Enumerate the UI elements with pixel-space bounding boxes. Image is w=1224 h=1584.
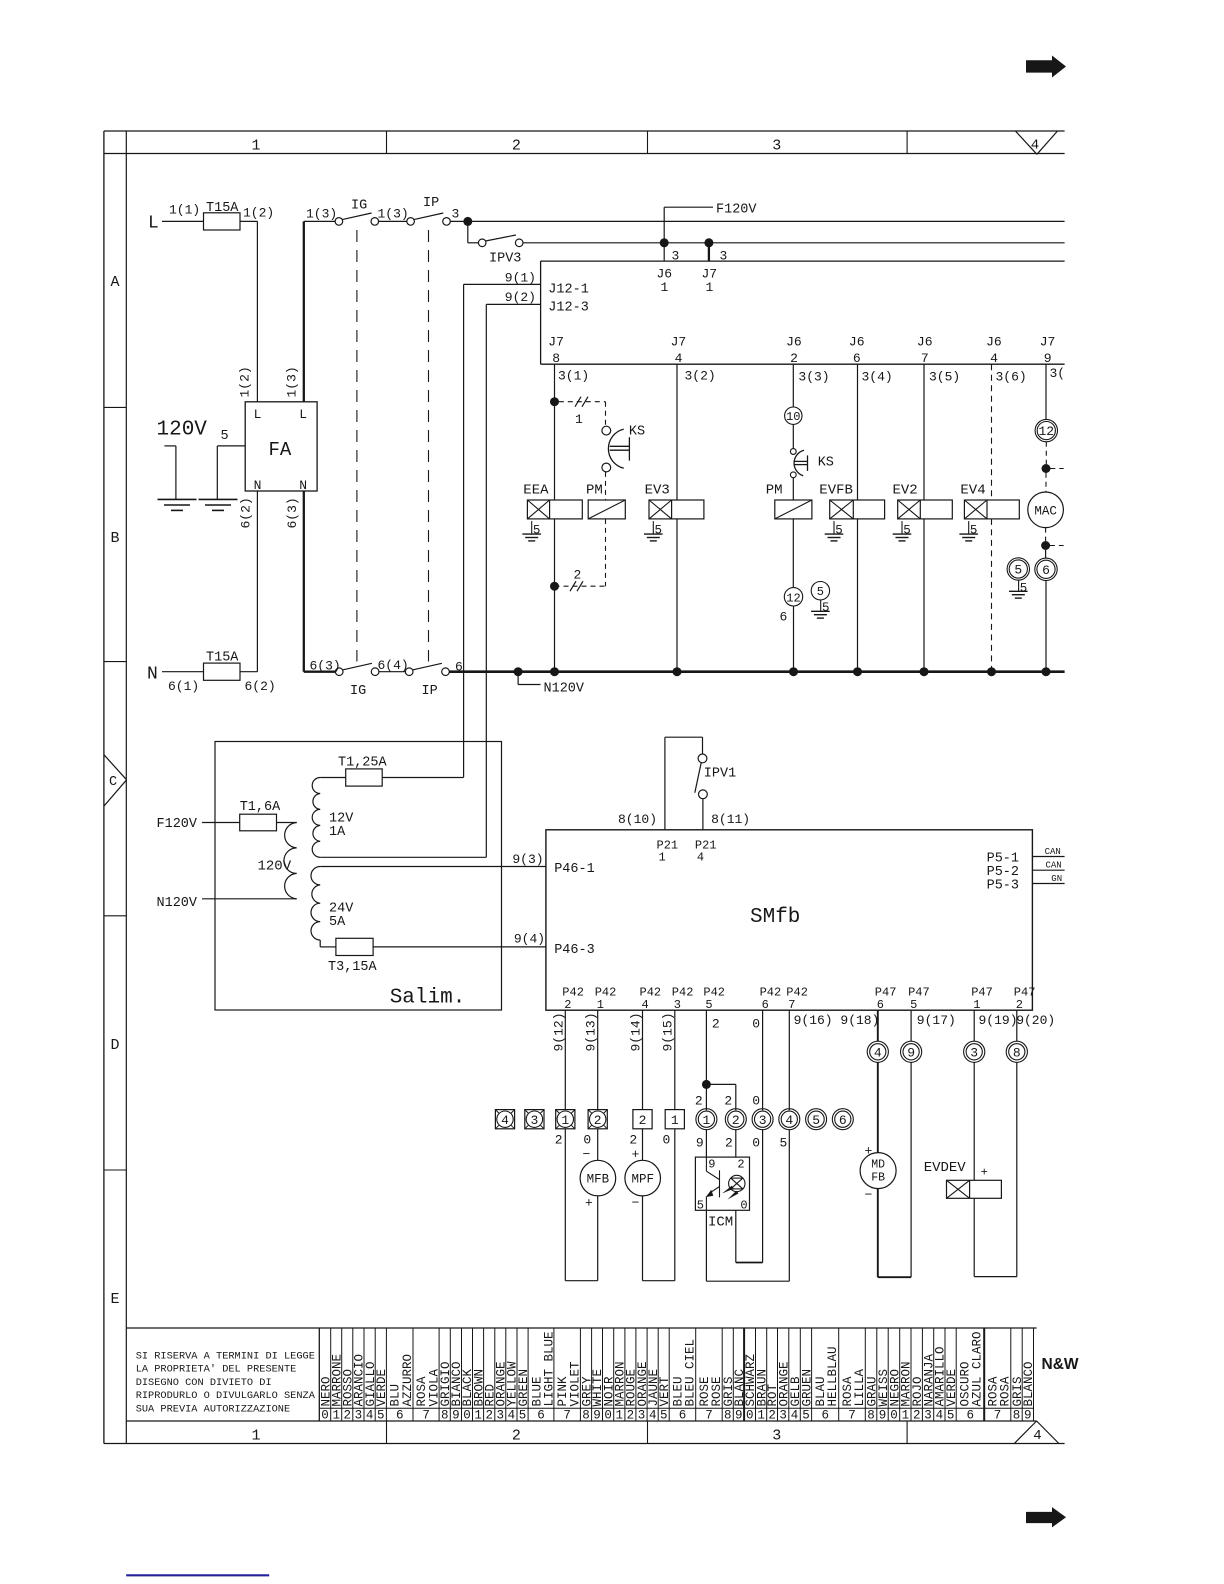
ground EV4 pin 5	[959, 521, 978, 541]
svg-text:J6: J6	[986, 335, 1002, 350]
svg-text:1: 1	[706, 280, 714, 295]
svg-text:4: 4	[874, 1045, 882, 1060]
svg-text:1: 1	[757, 1409, 765, 1423]
top right sheet arrow	[1026, 56, 1066, 78]
dashed wire MAC to node	[1045, 528, 1047, 542]
pin P42-7	[786, 986, 808, 1012]
connector pin 6 (spare)	[832, 1109, 853, 1130]
left fold mark C	[104, 755, 127, 806]
svg-text:J7: J7	[671, 335, 687, 350]
wire EEA to bus	[554, 519, 556, 672]
connector pin 4 (spare)	[495, 1110, 514, 1129]
svg-text:3(6): 3(6)	[996, 369, 1027, 384]
svg-text:KS: KS	[818, 456, 834, 471]
wire CAN high	[1032, 847, 1064, 857]
connector pin 2 (ICM)	[725, 1109, 746, 1130]
svg-text:8: 8	[1013, 1045, 1021, 1060]
svg-text:6: 6	[1042, 563, 1050, 578]
wire MDFB right	[910, 1062, 912, 1277]
terminal 12	[780, 588, 803, 625]
svg-text:5: 5	[835, 523, 843, 537]
svg-text:10: 10	[786, 410, 800, 424]
junction node (MAC top)	[1042, 464, 1064, 473]
svg-text:J6: J6	[917, 335, 933, 350]
svg-text:P46-1: P46-1	[554, 862, 595, 877]
wire 6 to bus	[1045, 581, 1047, 672]
svg-text:BLANCO: BLANCO	[1022, 1361, 1036, 1406]
wire 3(5) J6-7 to EV2	[924, 364, 960, 500]
svg-text:5: 5	[519, 1409, 527, 1423]
wire 9(14)	[628, 1010, 643, 1109]
svg-text:EV2: EV2	[893, 483, 918, 499]
svg-text:N&W: N&W	[1042, 1356, 1079, 1373]
svg-text:VERDE: VERDE	[945, 1369, 959, 1407]
wire pin1 to ICM	[705, 1130, 707, 1157]
solenoid EV3	[645, 483, 704, 519]
wire EV3 to bus	[676, 519, 678, 672]
svg-text:9: 9	[735, 1409, 743, 1423]
svg-text:J7: J7	[548, 335, 564, 350]
svg-text:0: 0	[746, 1409, 754, 1423]
svg-text:J6: J6	[849, 335, 865, 350]
junction EVFB/bus	[853, 667, 862, 676]
svg-text:EEA: EEA	[523, 483, 549, 499]
svg-text:4: 4	[642, 998, 649, 1012]
svg-text:5A: 5A	[329, 915, 346, 930]
thermostat KS2	[790, 449, 834, 478]
svg-text:120V: 120V	[258, 859, 292, 875]
svg-text:5: 5	[660, 1409, 668, 1423]
wire MDFB left lower (bold)	[877, 1189, 879, 1278]
wire N to fuse	[162, 671, 204, 673]
svg-text:6(2): 6(2)	[239, 497, 254, 528]
svg-text:N: N	[299, 478, 307, 493]
svg-text:7: 7	[422, 1409, 430, 1423]
pin label J7 1	[702, 267, 718, 296]
svg-text:1(1): 1(1)	[169, 203, 200, 218]
junction J7-1	[704, 238, 713, 247]
wire 9(2) vertical	[485, 304, 487, 857]
svg-text:EVDEV: EVDEV	[924, 1160, 967, 1176]
svg-text:4: 4	[791, 1409, 799, 1423]
wire to switch IG	[304, 220, 335, 222]
svg-text:6: 6	[821, 1409, 829, 1423]
svg-text:6: 6	[780, 609, 788, 624]
svg-text:1: 1	[561, 1113, 569, 1128]
junction J6-1	[660, 238, 669, 247]
svg-text:9: 9	[696, 1135, 704, 1150]
junction EV2/bus	[920, 667, 929, 676]
bottom border row	[387, 1421, 908, 1444]
junction node (MAC bottom)	[1041, 541, 1064, 550]
svg-text:5: 5	[903, 523, 911, 537]
junction ICM feed	[702, 1080, 736, 1110]
connector box	[541, 261, 1065, 364]
svg-text:0: 0	[752, 1094, 760, 1109]
svg-text:D: D	[110, 1037, 119, 1054]
svg-text:F120V: F120V	[716, 203, 757, 218]
wire IPV3 rail	[523, 242, 1065, 244]
svg-text:8: 8	[552, 351, 560, 366]
wire 9(1) vertical	[463, 284, 465, 777]
pin P42-3	[672, 986, 694, 1012]
svg-text:3: 3	[772, 138, 781, 155]
wire drop to IPV3	[467, 221, 469, 242]
connector pin 2 (MPF)	[633, 1110, 652, 1129]
wire 9(13)	[584, 1010, 599, 1109]
wire 3(4) J6-6 to EVFB	[858, 364, 893, 500]
pin P42-5	[703, 986, 725, 1012]
svg-text:J12-3: J12-3	[548, 301, 589, 316]
svg-text:3: 3	[530, 1113, 538, 1128]
wire N120V to primary	[202, 898, 297, 900]
svg-text:E: E	[110, 1291, 119, 1308]
svg-text:2: 2	[712, 1017, 720, 1032]
wire EVDEV left	[973, 1062, 975, 1180]
svg-text:6: 6	[839, 1113, 847, 1128]
svg-text:9(4): 9(4)	[514, 932, 545, 947]
svg-text:3: 3	[759, 1113, 767, 1128]
switch IP (neutral)	[405, 663, 449, 699]
wire pin3 down	[762, 1130, 764, 1263]
terminal 6 (MAC)	[1035, 558, 1057, 580]
wire EVDEV right	[1016, 1062, 1018, 1276]
switch IPV1	[695, 737, 736, 798]
svg-text:4: 4	[649, 1409, 657, 1423]
wire colour code table	[126, 1328, 1036, 1421]
solenoid EV2	[893, 483, 953, 519]
svg-text:5: 5	[812, 1113, 820, 1128]
svg-text:5: 5	[655, 523, 663, 537]
pin label J6 4	[986, 335, 1002, 366]
wire 6(3) FA down (bold)	[285, 491, 304, 672]
wire pin2 to ICM	[735, 1130, 737, 1157]
svg-text:T15A: T15A	[206, 201, 239, 216]
pin P47-6	[875, 986, 897, 1012]
pin label J7 4	[671, 335, 687, 366]
svg-text:7: 7	[921, 351, 929, 366]
bus N120V (bold)	[449, 670, 1064, 673]
svg-text:EV4: EV4	[960, 483, 985, 499]
connector pin 4 (ICM)	[779, 1109, 800, 1130]
svg-text:2: 2	[725, 1135, 733, 1150]
wire L to fuse	[162, 220, 204, 222]
secondary winding 24V	[311, 867, 354, 941]
svg-text:2: 2	[627, 1409, 635, 1423]
svg-text:1A: 1A	[329, 825, 346, 840]
wire P47-5	[910, 1010, 912, 1041]
junction N120V tap	[514, 667, 585, 696]
wire node 3 main rail	[450, 220, 1064, 222]
svg-text:2: 2	[512, 138, 521, 155]
svg-text:T1,6A: T1,6A	[240, 800, 281, 815]
svg-text:0: 0	[752, 1135, 760, 1150]
ground EEA pin 5	[522, 521, 541, 541]
wire IG to IP	[379, 220, 407, 222]
svg-text:9(16) 9(18): 9(16) 9(18)	[794, 1013, 880, 1028]
svg-text:8: 8	[582, 1409, 590, 1423]
switch IG (neutral)	[335, 663, 379, 699]
svg-text:2: 2	[768, 1409, 776, 1423]
wire 8(10)	[618, 737, 703, 830]
svg-text:3: 3	[497, 1409, 505, 1423]
svg-text:1(3): 1(3)	[378, 207, 409, 222]
wire MFB left	[564, 1129, 566, 1281]
svg-text:L: L	[254, 407, 262, 422]
svg-text:1: 1	[474, 1409, 482, 1423]
svg-text:CAN: CAN	[1046, 861, 1062, 871]
junction EV4/bus	[987, 667, 996, 676]
svg-text:9(15): 9(15)	[660, 1012, 675, 1051]
motor MFB	[580, 1129, 616, 1281]
svg-text:6: 6	[537, 1409, 545, 1423]
dashed link PM1 to cam 2	[605, 519, 607, 586]
svg-text:7: 7	[994, 1409, 1002, 1423]
svg-text:5: 5	[697, 1199, 704, 1213]
bottom border labels	[251, 1427, 1041, 1444]
pin label J6 7	[917, 335, 933, 366]
pin label J6 1	[657, 267, 673, 296]
bottom right sheet arrow	[1026, 1507, 1066, 1527]
svg-text:FB: FB	[871, 1172, 885, 1185]
svg-text:B: B	[110, 530, 119, 547]
dashed wire 12 to node	[1045, 442, 1047, 464]
svg-text:4: 4	[508, 1409, 516, 1423]
svg-text:6: 6	[396, 1409, 404, 1423]
svg-text:2: 2	[724, 1094, 732, 1109]
svg-text:9: 9	[907, 1045, 915, 1060]
svg-text:2: 2	[485, 1409, 493, 1423]
svg-text:1(2): 1(2)	[243, 206, 274, 221]
connector pin 3 (ICM)	[752, 1109, 773, 1130]
wire P47-6 (bold)	[878, 1010, 956, 1041]
wire MDFB left (bold)	[877, 1062, 879, 1152]
svg-text:5: 5	[947, 1409, 955, 1423]
thermostat KS1	[602, 424, 645, 472]
svg-text:1(3): 1(3)	[306, 207, 337, 222]
solenoid EVDEV	[924, 1160, 1002, 1198]
connector pin 9 (MDFB)	[901, 1041, 922, 1062]
svg-text:IPV1: IPV1	[704, 767, 736, 782]
legend box	[126, 1328, 1036, 1421]
svg-text:2: 2	[629, 1132, 637, 1147]
relay coil PM2	[766, 483, 812, 519]
pin P42-4	[640, 986, 662, 1012]
pin J12-3	[486, 290, 589, 316]
svg-text:8: 8	[867, 1409, 875, 1423]
wire GND	[1032, 874, 1064, 884]
svg-text:9(1): 9(1)	[505, 271, 536, 286]
wire 1(3) FA up (bold)	[285, 221, 304, 401]
relay coil PM1	[586, 483, 625, 519]
svg-text:N: N	[147, 665, 158, 685]
left border row labels	[109, 274, 120, 1308]
svg-text:MAC: MAC	[1034, 504, 1057, 518]
svg-text:8: 8	[1013, 1409, 1021, 1423]
svg-text:1: 1	[902, 1409, 910, 1423]
svg-text:FA: FA	[269, 439, 292, 461]
svg-text:P5-3: P5-3	[987, 878, 1019, 893]
svg-text:9(19): 9(19)	[979, 1013, 1018, 1028]
wire 3(6) J6-4 dashed	[992, 364, 1027, 500]
wire MPF right	[674, 1129, 676, 1281]
pin P21-4	[695, 838, 717, 864]
svg-text:4: 4	[990, 351, 998, 366]
wire 24V bottom to fuse	[319, 940, 321, 947]
wire EVDEV down	[973, 1198, 975, 1276]
svg-text:RIPRODURLO O DIVULGARLO SENZA: RIPRODURLO O DIVULGARLO SENZA	[136, 1390, 316, 1402]
svg-text:9: 9	[708, 1157, 715, 1171]
svg-text:9(13): 9(13)	[584, 1012, 599, 1051]
svg-text:3(1): 3(1)	[558, 369, 589, 384]
svg-text:EVFB: EVFB	[819, 483, 853, 499]
svg-text:6(1): 6(1)	[168, 679, 199, 694]
junction cam 1	[550, 397, 559, 406]
svg-text:3: 3	[674, 998, 681, 1012]
power supply box Salim	[215, 742, 502, 1011]
pin P21-1	[657, 838, 679, 864]
wire 3(3) J6-2	[793, 364, 829, 407]
svg-text:T15A: T15A	[206, 650, 239, 665]
svg-text:VERDE: VERDE	[375, 1369, 389, 1407]
svg-text:0: 0	[740, 1199, 747, 1213]
svg-text:3: 3	[355, 1409, 363, 1423]
svg-text:12: 12	[1038, 424, 1054, 439]
svg-text:5: 5	[802, 1409, 810, 1423]
svg-text:8(11): 8(11)	[711, 812, 750, 827]
svg-text:4: 4	[697, 851, 704, 865]
svg-text:9(12): 9(12)	[552, 1012, 567, 1051]
wire P42-7 9(16) 9(18)	[789, 1010, 879, 1110]
svg-text:120V: 120V	[157, 419, 208, 442]
120V source lead	[164, 446, 176, 500]
terminal 12 (MAC)	[1035, 419, 1057, 441]
dashed link to KS1	[605, 402, 607, 427]
svg-text:0: 0	[752, 1017, 760, 1032]
svg-text:4: 4	[1031, 138, 1039, 154]
svg-text:IG: IG	[351, 199, 367, 214]
svg-text:1: 1	[973, 998, 980, 1012]
svg-text:6: 6	[853, 351, 861, 366]
pin P42-1	[595, 986, 617, 1012]
svg-text:1(3): 1(3)	[285, 366, 300, 397]
svg-text:MD: MD	[871, 1159, 885, 1172]
svg-text:LIGHT BLUE: LIGHT BLUE	[543, 1331, 557, 1406]
svg-text:HELLBLAU: HELLBLAU	[826, 1346, 840, 1406]
svg-text:1: 1	[332, 1409, 340, 1423]
connector pin 3 (spare)	[525, 1110, 544, 1129]
wire 3(2) J7-4 to EV3	[677, 364, 716, 500]
filter FA	[245, 402, 317, 493]
svg-text:J7: J7	[1040, 335, 1056, 350]
wire pin4 down	[788, 1130, 790, 1282]
svg-text:6(3): 6(3)	[310, 659, 341, 674]
svg-text:3(3): 3(3)	[798, 369, 829, 384]
svg-text:2: 2	[512, 1427, 521, 1444]
svg-text:BLEU CIEL: BLEU CIEL	[684, 1339, 698, 1407]
connector pin 4 (MDFB)	[867, 1041, 888, 1062]
svg-text:1: 1	[251, 138, 260, 155]
svg-text:0: 0	[583, 1132, 591, 1147]
optocoupler ICM	[695, 1157, 749, 1213]
FA pin 5 lead	[217, 429, 245, 499]
pin P47-2	[1014, 986, 1036, 1012]
motor MAC	[1028, 492, 1064, 528]
solenoid EV4	[960, 483, 1019, 519]
wire 24V top to P46-1	[320, 866, 546, 868]
fuse T1,25A	[338, 756, 388, 787]
svg-text:5: 5	[1020, 582, 1028, 596]
svg-text:N120V: N120V	[157, 896, 198, 911]
svg-text:2: 2	[695, 1094, 703, 1109]
svg-text:+: +	[981, 1166, 988, 1180]
svg-text:7: 7	[848, 1409, 856, 1423]
pin label J6 6	[849, 335, 865, 366]
svg-text:6: 6	[966, 1409, 974, 1423]
svg-text:2: 2	[732, 1113, 740, 1128]
svg-text:KS: KS	[629, 424, 645, 439]
svg-text:PM: PM	[766, 483, 783, 499]
fuse T1,6A	[240, 800, 281, 831]
svg-text:IP: IP	[422, 684, 438, 699]
wire EVDEV bottom	[974, 1276, 1017, 1278]
connector pin 5 (spare)	[806, 1109, 827, 1130]
pin label J7 9	[1040, 335, 1056, 366]
wire ICM-0 down	[735, 1210, 737, 1262]
svg-text:1: 1	[251, 1427, 260, 1444]
junction EV3/bus	[673, 667, 682, 676]
connector pin 3 (EVDEV)	[964, 1041, 985, 1062]
wire MPF bottom	[643, 1280, 675, 1282]
connector pin 1 (MFB)	[556, 1110, 575, 1129]
svg-text:−: −	[632, 1196, 640, 1211]
pin P47-5	[908, 986, 930, 1012]
svg-text:PM: PM	[586, 483, 603, 499]
svg-text:9: 9	[1024, 1409, 1032, 1423]
svg-text:DISEGNO CON DIVIETO DI: DISEGNO CON DIVIETO DI	[136, 1377, 272, 1389]
fuse T15A (neutral)	[204, 650, 241, 680]
svg-text:2: 2	[790, 351, 798, 366]
legend text	[136, 1351, 316, 1416]
wire EV2 to bus	[923, 519, 925, 672]
svg-text:6(4): 6(4)	[378, 658, 409, 673]
wire EVFB to bus	[857, 519, 859, 672]
svg-text:2: 2	[1016, 998, 1023, 1012]
connector pin 8 (EVDEV)	[1006, 1041, 1027, 1062]
svg-text:7: 7	[788, 998, 795, 1012]
svg-text:2: 2	[594, 1113, 602, 1128]
svg-text:SMfb: SMfb	[750, 906, 800, 929]
svg-text:0: 0	[663, 1132, 671, 1147]
switch IG	[335, 199, 379, 226]
wire 3(1) J7-8 to EEA	[555, 364, 590, 500]
svg-text:8(10): 8(10)	[618, 812, 657, 827]
wire fuse to P46-3	[373, 946, 546, 948]
wire KS2 to PM2	[792, 478, 794, 500]
svg-text:4: 4	[936, 1409, 944, 1423]
junction EEA/bus	[550, 667, 559, 676]
svg-text:SUA PREVIA AUTORIZZAZIONE: SUA PREVIA AUTORIZZAZIONE	[136, 1403, 290, 1415]
svg-text:2: 2	[737, 1157, 744, 1171]
svg-text:ICM: ICM	[708, 1214, 733, 1230]
svg-text:T1,25A: T1,25A	[338, 756, 388, 771]
wire P42-5 to ICM	[706, 1010, 719, 1110]
svg-text:AZUL CLARO: AZUL CLARO	[971, 1331, 985, 1406]
dashed link KS1 to PM1	[605, 472, 607, 500]
svg-text:Salim.: Salim.	[390, 987, 466, 1010]
svg-text:9(2): 9(2)	[505, 290, 536, 305]
junction cam 2	[550, 582, 559, 591]
